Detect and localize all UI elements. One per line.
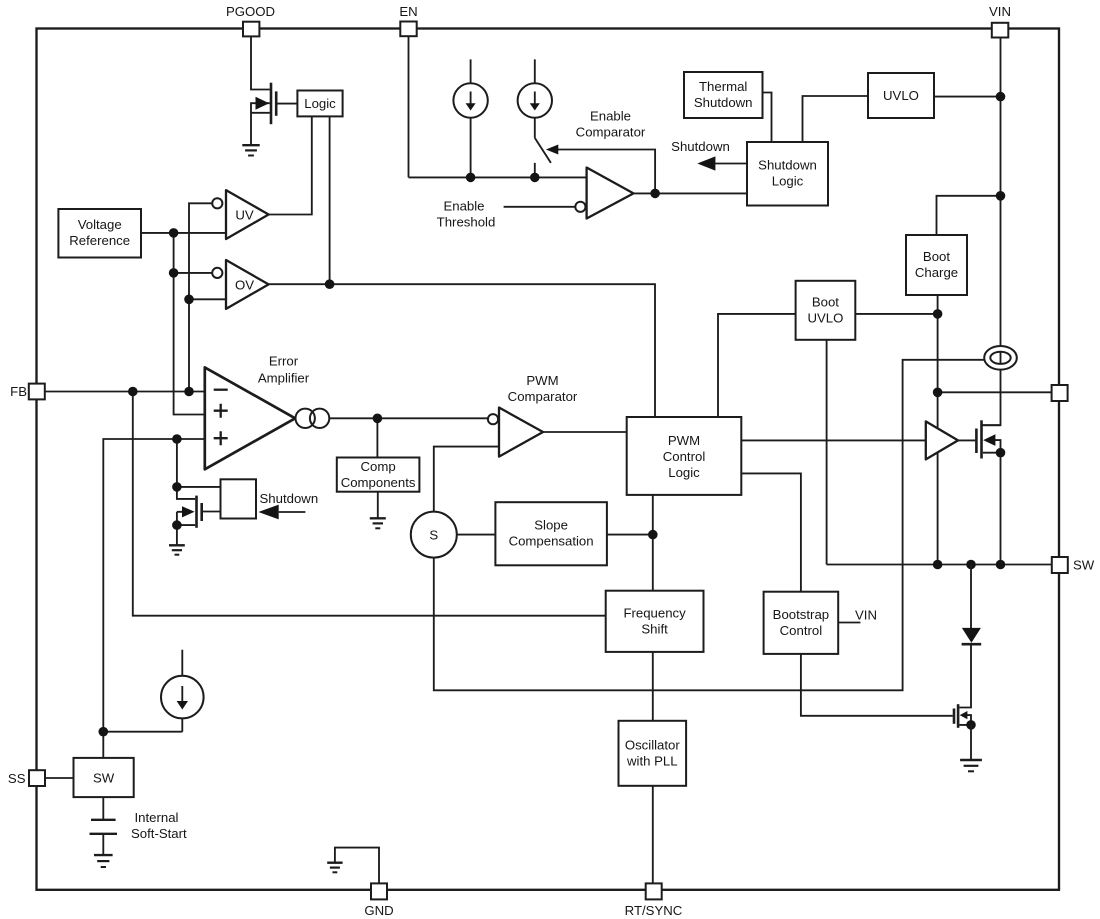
svg-text:OV: OV [235, 278, 254, 293]
svg-text:Enable: Enable [590, 108, 631, 123]
junction FB to frequency shift branch [128, 387, 138, 397]
wire GND pin to internal ground [335, 848, 379, 884]
transistor Q1 PGOOD pull-down NMOS [251, 83, 276, 145]
arrow switch control [546, 145, 558, 155]
wire current sense from summer to sense coil [434, 360, 985, 691]
junction VREF to OV branch [169, 268, 179, 278]
svg-text:UVLO: UVLO [883, 88, 919, 103]
svg-text:S: S [429, 528, 438, 543]
svg-text:Compensation: Compensation [509, 534, 594, 549]
wire UVLO to shutdown logic [803, 96, 869, 142]
wire PWM control logic to gate driver [741, 439, 926, 441]
junction error amp output to comp components [373, 414, 383, 424]
label Frequency Shift [623, 605, 686, 636]
current source I1 [453, 59, 487, 177]
svg-text:SW: SW [93, 771, 115, 786]
current source I3 soft-start [161, 650, 204, 732]
wire soft-start to error amp second plus input [103, 439, 205, 732]
label Bootstrap Control [773, 607, 829, 638]
block Boot UVLO [796, 281, 856, 340]
current source I2 [518, 59, 552, 137]
block Boot Charge [906, 235, 967, 295]
junction Q2 body source tie [172, 520, 182, 530]
error amplifier gm output symbol (double circle) [296, 409, 330, 428]
wire Q3 source to SW line [1000, 453, 1002, 565]
wire FB to Frequency Shift input [133, 392, 606, 616]
svg-text:Charge: Charge [915, 265, 958, 280]
label Shutdown Logic [758, 158, 817, 189]
label Voltage Reference [69, 217, 130, 248]
wire Logic to OV output junction [329, 116, 331, 284]
svg-text:Boot: Boot [812, 294, 839, 309]
junction FB bus at FB line [184, 387, 194, 397]
wire shutdown output lead [713, 163, 747, 165]
label Slope Compensation [509, 518, 594, 549]
svg-text:Error: Error [269, 353, 299, 368]
wire SW line [827, 564, 1052, 566]
gate driver buffer [926, 421, 958, 459]
pin SW [1052, 557, 1068, 573]
svg-text:PWM: PWM [668, 433, 700, 448]
wire bootstrap VIN stub [838, 622, 860, 624]
wire frequency shift to oscillator [652, 652, 654, 721]
svg-text:Components: Components [341, 475, 416, 490]
svg-text:Control: Control [780, 623, 823, 638]
wire slope compensation output [607, 534, 653, 536]
svg-text:UV: UV [235, 208, 254, 223]
svg-text:EN: EN [399, 4, 417, 19]
block Comp Components [337, 458, 420, 492]
wire VREF bus to OV inverting input [174, 272, 213, 274]
svg-text:Comp: Comp [361, 459, 396, 474]
junction Logic to OV output line [325, 279, 335, 289]
wire PWM control logic to frequency shift [652, 495, 654, 591]
switch hysteresis blade [535, 138, 551, 178]
svg-text:Threshold: Threshold [437, 215, 496, 230]
svg-text:PWM: PWM [526, 373, 558, 388]
junction Q3 body source tie [996, 448, 1006, 458]
arrow shutdown output [697, 156, 715, 170]
svg-text:SS: SS [8, 771, 26, 786]
wire comp components to ground [377, 492, 379, 519]
pin RT/SYNC [646, 883, 662, 899]
wire VREF bus to error amp plus input [174, 233, 205, 415]
block Thermal Shutdown [684, 72, 763, 118]
wire OV output to PWM Control Logic [269, 284, 655, 417]
block PWM Control Logic [627, 417, 742, 495]
wire FB pin to error amp minus input [45, 391, 205, 393]
junction boot UVLO on boot rail [933, 309, 943, 319]
wire VIN rail [981, 37, 1000, 425]
transistor Q2 shutdown NMOS [177, 487, 202, 545]
svg-text:Logic: Logic [304, 96, 336, 111]
wire enable comparator output to shutdown logic [634, 192, 748, 194]
block Logic U2 [297, 91, 342, 117]
svg-text:Thermal: Thermal [699, 79, 747, 94]
ground at soft-start capacitor [94, 855, 113, 867]
label Oscillator with PLL [625, 737, 681, 768]
ground at Q1 source [242, 145, 259, 155]
wire UVLO to VIN rail [934, 96, 1001, 98]
svg-text:Reference: Reference [69, 233, 130, 248]
comparator OV [212, 260, 268, 309]
junction enable comparator output [650, 189, 660, 199]
svg-text:Logic: Logic [668, 465, 700, 480]
label PWM Control Logic [663, 433, 706, 480]
transistor Q3 high-side NMOS [976, 420, 1000, 458]
pin GND [371, 883, 387, 899]
svg-text:Slope: Slope [534, 518, 568, 533]
diode D1 [962, 628, 982, 644]
svg-text:Comparator: Comparator [508, 389, 578, 404]
wire soft-start source to SW block [103, 732, 182, 758]
block Oscillator with PLL [619, 721, 687, 786]
svg-text:Logic: Logic [772, 174, 804, 189]
svg-text:RT/SYNC: RT/SYNC [625, 903, 683, 918]
label Error Amplifier [258, 353, 310, 385]
wire Q1 gate to Logic [277, 103, 297, 105]
label Boot UVLO [807, 294, 843, 325]
wire Q4 source to ground [970, 725, 972, 760]
svg-text:Control: Control [663, 449, 706, 464]
label Boot Charge [915, 249, 958, 280]
svg-text:Soft-Start: Soft-Start [131, 826, 187, 841]
wire VREF output to UV lower input [141, 232, 226, 234]
svg-text:VIN: VIN [989, 4, 1011, 19]
ground at comp components [370, 518, 386, 528]
junction Q2 drain wire [172, 482, 182, 492]
wire PWM control logic to bootstrap control [741, 473, 801, 591]
wire SW block to soft-start capacitor [102, 797, 104, 819]
junction boot pin on boot rail [933, 388, 943, 398]
junction VREF at voltage reference output [169, 228, 179, 238]
label Enable Comparator [576, 108, 646, 139]
label Thermal Shutdown [694, 79, 753, 110]
svg-text:Shutdown: Shutdown [758, 158, 817, 173]
block Shutdown Logic [747, 142, 828, 206]
wire EN line to enable comparator [409, 176, 587, 178]
summing node S [411, 512, 457, 558]
wire bootstrap control to low-side gate [801, 654, 953, 716]
capacitor internal soft-start [90, 820, 118, 834]
wire PGOOD pin to Q1 drain [251, 37, 270, 90]
wire boot UVLO left to PWM control logic [718, 314, 796, 417]
svg-text:SW: SW [1073, 558, 1095, 573]
wire FB bus to UV inverting input [189, 203, 212, 391]
wire diode cathode to Q4 drain [959, 645, 971, 708]
svg-text:Frequency: Frequency [623, 605, 686, 620]
block Frequency Shift [606, 591, 704, 652]
pin EN [400, 22, 416, 37]
pin PGOOD [243, 22, 259, 37]
svg-text:Boot: Boot [923, 249, 950, 264]
junction I1 on EN line [466, 173, 476, 183]
ground at Q2 source [169, 545, 185, 554]
wire boot rail down to SW node [937, 295, 939, 565]
wire UV output to Logic [269, 116, 312, 214]
svg-text:Voltage: Voltage [78, 217, 122, 232]
svg-text:Bootstrap: Bootstrap [773, 607, 829, 622]
wire error amp output to PWM comparator [329, 417, 488, 419]
junction boot rail on SW line [933, 560, 943, 570]
block Bootstrap Control [764, 592, 839, 654]
junction UVLO on VIN rail [996, 92, 1006, 102]
wire enable threshold input [504, 206, 576, 208]
svg-text:Shutdown: Shutdown [260, 491, 319, 506]
svg-text:FB: FB [10, 384, 27, 399]
comparator UV [212, 190, 268, 239]
junction slope output [648, 530, 658, 540]
svg-text:VIN: VIN [855, 608, 877, 623]
wire summer to slope compensation [457, 534, 496, 536]
junction I2 on EN line [530, 173, 540, 183]
wire switch control from comparator output [554, 150, 655, 194]
svg-text:UVLO: UVLO [807, 310, 843, 325]
label Enable Threshold [437, 199, 496, 230]
arrow shutdown signal into box [258, 505, 278, 520]
svg-text:Shutdown: Shutdown [671, 139, 730, 154]
block Slope Compensation [495, 502, 607, 565]
svg-text:Enable: Enable [443, 199, 484, 214]
wire capacitor to ground [102, 834, 104, 855]
label Comp Components [341, 459, 416, 490]
comparator PWM [488, 408, 543, 457]
svg-text:PGOOD: PGOOD [226, 4, 275, 19]
svg-text:Comparator: Comparator [576, 124, 646, 139]
svg-text:Oscillator: Oscillator [625, 737, 681, 752]
svg-text:Amplifier: Amplifier [258, 370, 310, 385]
wire SW node to diode anode [970, 565, 972, 629]
pin VIN [992, 23, 1009, 38]
svg-text:Internal: Internal [135, 810, 179, 825]
transistor Q4 low-side NMOS [954, 704, 971, 728]
current sense coil [984, 346, 1017, 370]
svg-text:with PLL: with PLL [626, 753, 678, 768]
block UVLO [868, 73, 934, 118]
block shutdown control square [221, 479, 257, 518]
pin SS [29, 770, 45, 786]
junction error amp input at Q2 branch [172, 434, 182, 444]
comparator enable [575, 168, 633, 219]
wire driver output to high-side gate [958, 439, 975, 441]
ground at GND pin [327, 863, 342, 873]
junction soft-start node [99, 727, 109, 737]
wire error amp input to shutdown transistor Q2 [177, 439, 221, 487]
wire summer to PWM comparator input [434, 447, 499, 512]
junction boot charge on VIN rail [996, 191, 1006, 201]
wire oscillator to RT/SYNC pin [652, 786, 654, 884]
op-amp error amplifier [205, 367, 295, 469]
wire boot UVLO bottom to SW line [826, 340, 828, 565]
wire FB bus to OV lower input [189, 298, 226, 300]
wire PWM comparator output to PWM control logic [543, 431, 627, 433]
wire Q2 gate to shutdown box [203, 511, 221, 513]
wire EN pin down [408, 37, 410, 178]
svg-text:Shift: Shift [641, 621, 668, 636]
wire boot pin lead [938, 391, 1052, 393]
label Internal Soft-Start [131, 810, 187, 841]
junction Q3 source on SW line [996, 560, 1006, 570]
pin BOOT unlabeled [1052, 385, 1068, 401]
wire thermal shutdown to shutdown logic [763, 93, 772, 143]
svg-text:Shutdown: Shutdown [694, 95, 753, 110]
ground at Q4 source [960, 760, 982, 771]
wire boot charge to VIN rail [937, 196, 1001, 235]
block Voltage Reference [58, 209, 141, 258]
pin FB [29, 384, 45, 400]
junction Q4 body source tie [966, 720, 976, 730]
junction diode on SW line [966, 560, 976, 570]
junction FB bus to OV branch [184, 295, 194, 305]
block SW soft-start switch [74, 758, 134, 797]
wire comp components tap [376, 418, 378, 457]
label PWM Comparator [508, 373, 578, 404]
wire boot UVLO right to boot rail [855, 313, 937, 315]
wire SS pin to SW block [45, 777, 74, 779]
wire shutdown arrow lead [279, 511, 306, 513]
svg-text:GND: GND [364, 903, 393, 918]
